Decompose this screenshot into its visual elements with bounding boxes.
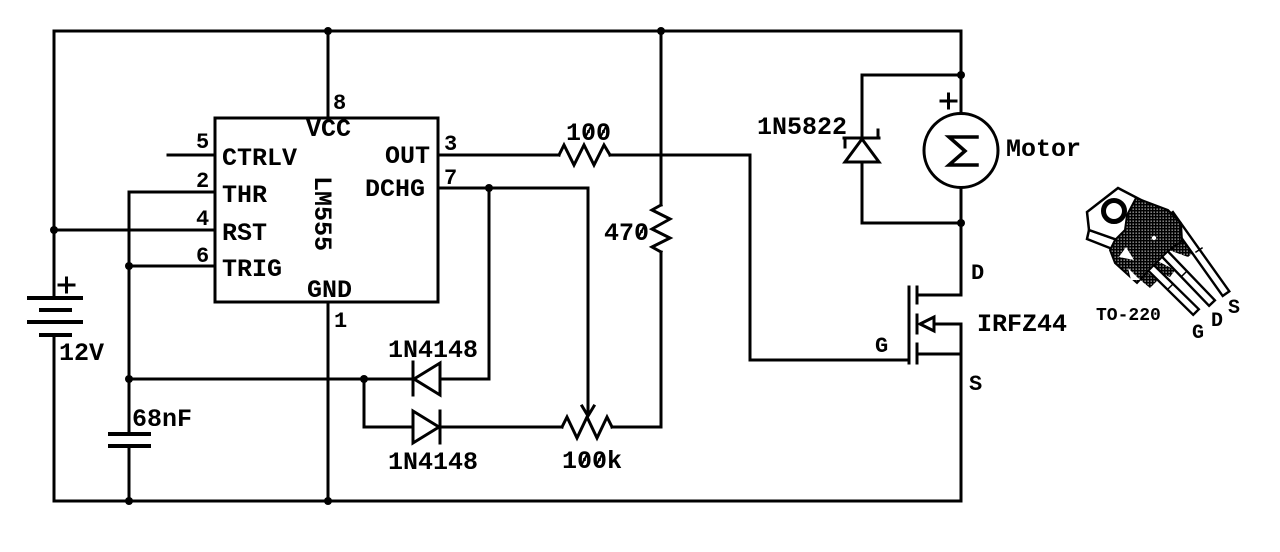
node RST left [50, 226, 58, 234]
svg-text:1N5822: 1N5822 [757, 113, 847, 142]
svg-text:IRFZ44: IRFZ44 [977, 310, 1067, 339]
package body hatched [1110, 198, 1182, 283]
node VCC top [324, 27, 332, 35]
wire TRIG to cap vertical [128, 266, 131, 379]
node TRIG [125, 262, 133, 270]
wire 470 bottom to pot [612, 252, 661, 427]
svg-text:8: 8 [333, 91, 346, 116]
svg-text:D: D [1211, 310, 1223, 333]
package tab [1087, 188, 1143, 243]
svg-text:S: S [969, 372, 982, 397]
node DCHG [485, 184, 493, 192]
potentiometer R3 100k zigzag [562, 417, 612, 438]
package notch white 2 [1128, 268, 1140, 280]
svg-text:TRIG: TRIG [222, 255, 282, 284]
motor M1 circle [924, 114, 998, 188]
svg-text:G: G [875, 334, 888, 359]
package tab thickness edge [1087, 230, 1126, 252]
wire node line to diodes [129, 378, 413, 381]
svg-text:3: 3 [444, 132, 457, 157]
wire 1N5822 top [862, 74, 961, 77]
wire top rail [54, 30, 961, 33]
wire bottom rail [54, 500, 961, 503]
wire mosfet source lead [917, 353, 961, 356]
wire motor top lead [960, 31, 963, 113]
slashed zeros [582, 126, 645, 465]
wire VCC pin 8 drop [327, 31, 330, 118]
wire pin 2 THR [129, 191, 215, 194]
wire pot wiper vertical [587, 188, 590, 414]
svg-text:Motor: Motor [1006, 135, 1081, 164]
battery B1 plates [29, 298, 81, 335]
node cap bottom [125, 497, 133, 505]
svg-text:DCHG: DCHG [365, 175, 425, 204]
potentiometer wiper arrow [582, 406, 594, 416]
svg-text:CTRLV: CTRLV [222, 144, 297, 173]
svg-text:G: G [1192, 322, 1204, 345]
package screw mark [1152, 236, 1156, 240]
svg-text:LM555: LM555 [307, 176, 336, 251]
node 1N5822 top [957, 71, 965, 79]
node cap top [125, 375, 133, 383]
wire mosfet body lead [935, 323, 961, 326]
wire 1N5822 anode lead [861, 162, 864, 223]
package leg D [1152, 241, 1215, 306]
package leg S [1166, 212, 1229, 296]
wire THR-TRIG vertical [128, 192, 131, 266]
svg-text:1N4148: 1N4148 [388, 448, 478, 477]
wire 1N5822 bottom [862, 222, 961, 225]
svg-text:S: S [1228, 297, 1240, 320]
svg-text:D: D [971, 261, 984, 286]
wire lower diode branch [364, 379, 413, 427]
wire left rail lower [53, 335, 56, 501]
wire 1N5822 cathode lead [861, 75, 864, 138]
motor sigma symbol [949, 137, 977, 165]
capacitor C1 68nF plates [110, 434, 149, 446]
svg-text:6: 6 [196, 244, 209, 269]
svg-text:RST: RST [222, 219, 267, 248]
wire lower diode to pot [440, 426, 562, 429]
svg-text:5: 5 [196, 130, 209, 155]
node 1N5822 bottom [957, 219, 965, 227]
battery plus sign [59, 278, 74, 292]
resistor R1 100 zigzag [559, 145, 610, 165]
wire OUT to gate [750, 155, 909, 360]
svg-text:12V: 12V [59, 339, 104, 368]
node diode split [360, 375, 368, 383]
package hatch wedge D-G [1143, 255, 1175, 277]
wire GND pin 1 drop [327, 302, 330, 501]
resistor R2 470 zigzag [652, 205, 670, 252]
wire pin 5 stub [168, 154, 215, 157]
node 470 top [657, 27, 665, 35]
svg-text:100: 100 [566, 119, 611, 148]
package hatch wedge below G [1128, 262, 1158, 288]
motor plus sign [941, 94, 956, 108]
package hole [1104, 201, 1125, 222]
node GND bottom [324, 497, 332, 505]
package leg G [1138, 255, 1199, 315]
IC U1 LM555 body [215, 118, 438, 302]
transistor Q1 IRFZ44 mosfet symbol [909, 287, 961, 363]
wire cap bottom lead [128, 446, 131, 501]
wire pin 4 RST [54, 229, 215, 232]
wire pin 3 OUT left [439, 154, 559, 157]
wire motor bottom to drain [917, 188, 961, 295]
wire left rail upper [53, 31, 56, 298]
svg-text:TO-220: TO-220 [1096, 306, 1161, 326]
svg-text:4: 4 [196, 207, 209, 232]
wire cap top lead [128, 379, 131, 434]
svg-text:2: 2 [196, 169, 209, 194]
wire source down to rail [960, 324, 963, 501]
svg-text:1N4148: 1N4148 [388, 336, 478, 365]
svg-text:GND: GND [307, 276, 352, 305]
svg-text:1: 1 [334, 309, 347, 334]
svg-text:100k: 100k [562, 447, 622, 476]
wire pin 3 OUT right [610, 154, 750, 157]
svg-text:68nF: 68nF [132, 405, 192, 434]
svg-text:470: 470 [604, 219, 649, 248]
diode D1 1N4148 upper pointing left [413, 362, 440, 395]
svg-text:VCC: VCC [306, 115, 351, 144]
svg-text:7: 7 [444, 166, 457, 191]
wire pin 7 DCHG [439, 187, 588, 190]
package notch white [1119, 247, 1134, 260]
diode D3 1N5822 schottky [844, 130, 879, 162]
diode D2 1N4148 lower pointing right [413, 411, 440, 443]
wire pin 6 TRIG [129, 265, 215, 268]
package hatch wedge S-D [1155, 228, 1195, 257]
wire upper diode to DCHG [440, 188, 489, 379]
wire 470 top [660, 31, 663, 205]
svg-text:THR: THR [222, 181, 267, 210]
svg-text:OUT: OUT [385, 142, 430, 171]
